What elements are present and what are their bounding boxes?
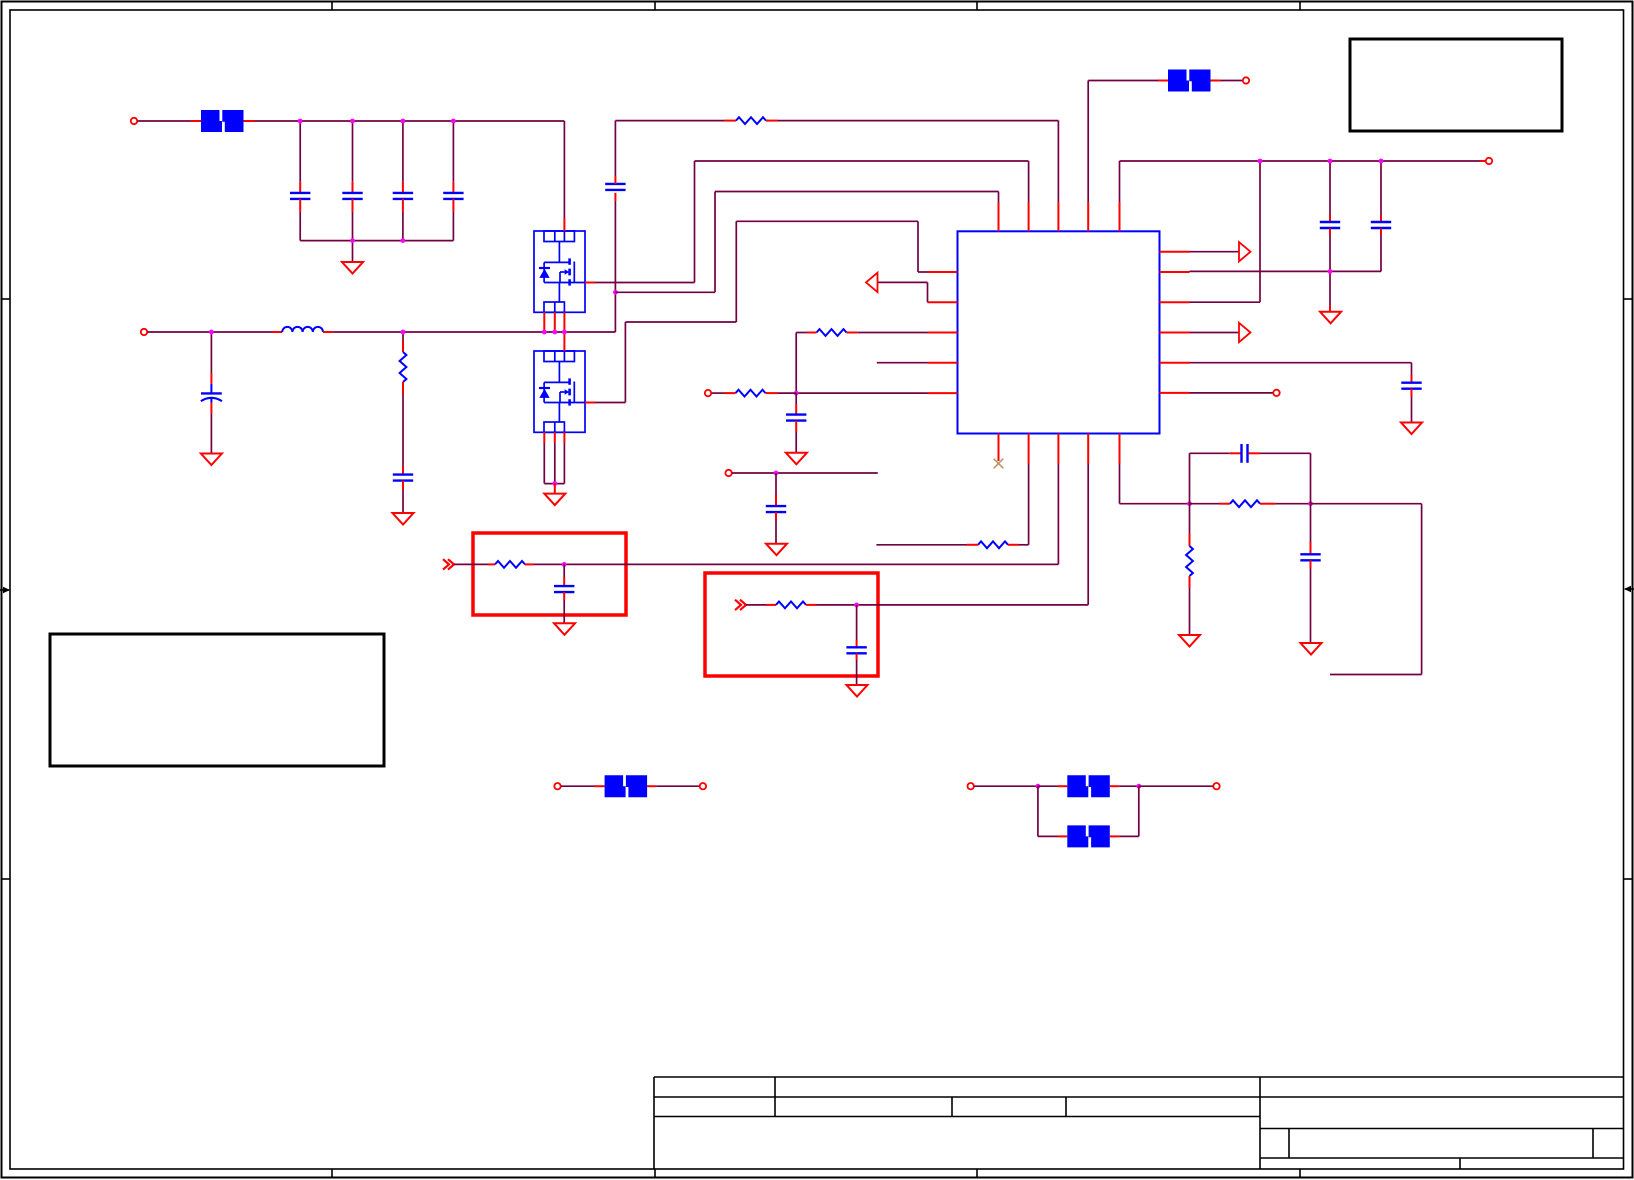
U1 pins: [928, 202, 1190, 464]
node: [562, 562, 567, 567]
wire: [1119, 835, 1139, 837]
wire: [656, 785, 699, 787]
cap lead: [795, 404, 797, 415]
node: [1328, 159, 1333, 164]
ground: [1320, 312, 1341, 324]
capacitor C13: [554, 586, 574, 592]
wire: [876, 544, 967, 546]
wire: [402, 490, 404, 513]
wire: [1088, 80, 1158, 82]
wire: [333, 331, 615, 333]
node: [774, 471, 779, 476]
wire netB: [695, 160, 1029, 162]
arrow port in1: [866, 273, 878, 292]
wire: [778, 120, 1059, 122]
input port chevron IN2: [735, 600, 746, 610]
cap lead: [299, 182, 301, 193]
wire: [352, 121, 354, 182]
wire: [1119, 161, 1121, 202]
ground: [786, 453, 807, 465]
wire: [1311, 503, 1422, 505]
wire: [1329, 271, 1331, 305]
ferrite bead FB2: [1168, 70, 1211, 92]
res lead: [1260, 503, 1275, 505]
cap lead: [452, 199, 454, 212]
ground: [1401, 423, 1422, 435]
cap lead: [1411, 375, 1413, 383]
wire: [796, 332, 807, 334]
wire: [299, 121, 301, 182]
wire: [452, 121, 454, 182]
wire: [561, 785, 595, 787]
wire: [1120, 503, 1190, 505]
capacitor C3: [393, 193, 413, 199]
wire: [138, 120, 191, 122]
pin lead Q2 bottom: [563, 432, 565, 443]
ground: [393, 513, 414, 525]
port P3: [1243, 77, 1249, 83]
wire: [1190, 251, 1240, 253]
res lead: [1189, 534, 1191, 547]
resistor R6: [978, 541, 1008, 548]
resistor R5: [776, 602, 806, 609]
wire: [255, 120, 564, 122]
res lead: [525, 563, 534, 565]
wire: [1190, 392, 1274, 394]
wire: [1310, 453, 1312, 503]
capacitor C16: [1300, 554, 1320, 560]
ferrite bead FB4: [1067, 775, 1110, 797]
wire: [554, 443, 556, 484]
cap lead: [1411, 389, 1413, 397]
wire: [299, 212, 301, 241]
node: [552, 330, 557, 335]
port P9: [700, 783, 706, 789]
wire: [775, 519, 777, 544]
cap lead: [402, 199, 404, 212]
wire: [402, 212, 404, 241]
cap lead: [775, 495, 777, 506]
res lead: [488, 563, 495, 565]
transistor Q1: [534, 231, 585, 312]
wire: [1380, 161, 1382, 215]
wire: [1119, 785, 1139, 787]
wire: [735, 221, 737, 322]
cap lead: [554, 484, 556, 494]
wire bus: [300, 240, 453, 242]
highlight box RB2: [705, 573, 878, 676]
wire netC: [715, 191, 999, 193]
wire: [563, 443, 565, 484]
capacitor C10: [1401, 383, 1421, 389]
wire: [563, 600, 565, 623]
wire: [714, 192, 716, 293]
cap lead: [352, 182, 354, 193]
cap lead: [402, 481, 404, 490]
wire: [1087, 464, 1089, 605]
cap lead: [210, 373, 212, 384]
inductor L1: [282, 327, 323, 332]
wire: [1189, 453, 1191, 503]
wire: [817, 604, 1089, 606]
ferrite bead FB1: [201, 110, 244, 132]
port P1: [131, 118, 137, 124]
pin lead: [595, 785, 605, 787]
note box BL: [50, 634, 384, 766]
wire: [1057, 121, 1059, 202]
wire: [1190, 362, 1412, 364]
pin lead Q1 bottom: [543, 312, 545, 332]
capacitor C2: [342, 193, 362, 199]
port P11: [1213, 783, 1219, 789]
cap lead: [614, 176, 616, 184]
cap lead: [1329, 305, 1331, 312]
wire: [1019, 544, 1029, 546]
wire: [796, 392, 927, 394]
wire net271: [1190, 270, 1382, 272]
wire: [917, 221, 919, 272]
ground: [554, 623, 575, 635]
node J12: [1036, 784, 1041, 789]
wire: [1310, 504, 1312, 542]
node: [1379, 159, 1384, 164]
cap lead: [1310, 560, 1312, 568]
pin lead Q1 bottom: [554, 312, 556, 332]
node: [350, 119, 355, 124]
ferrite bead FB3: [605, 775, 648, 797]
wire: [1028, 161, 1030, 202]
wire: [1221, 80, 1243, 82]
wire: [352, 241, 354, 262]
res lead: [402, 382, 404, 395]
wire: [1329, 161, 1331, 215]
pin lead: [1480, 160, 1486, 162]
pin lead: [1110, 835, 1119, 837]
capacitor C14: [846, 647, 866, 653]
res lead: [766, 120, 778, 122]
res lead: [724, 120, 736, 122]
ind lead: [323, 331, 333, 333]
input port chevron IN1: [443, 559, 454, 569]
wire: [918, 271, 928, 273]
wire: [1138, 786, 1140, 836]
pin lead Q1 top: [563, 218, 565, 231]
res lead: [766, 392, 778, 394]
node: [451, 119, 456, 124]
wire: [1190, 301, 1261, 303]
port P10: [968, 783, 974, 789]
wire: [856, 605, 858, 640]
cap lead: [1230, 452, 1241, 454]
capacitor C9: [1371, 222, 1391, 228]
res lead: [967, 544, 978, 546]
res lead: [766, 604, 776, 606]
cap lead: [856, 653, 858, 660]
cap lead: [1249, 452, 1261, 454]
capacitor C1: [290, 193, 310, 199]
cap lead: [1329, 215, 1331, 222]
cap lead: [402, 466, 404, 475]
cap lead: [563, 592, 565, 600]
note box TR: [1350, 39, 1562, 131]
resistor R2: [400, 352, 407, 382]
transistor Q2: [534, 351, 585, 432]
wire: [1037, 786, 1039, 836]
wire: [1189, 588, 1191, 635]
cap lead: [775, 512, 777, 519]
res lead: [847, 332, 858, 334]
node: [613, 290, 618, 295]
node: [209, 330, 214, 335]
ferrite bead FB5: [1067, 825, 1110, 847]
cap lead: [299, 199, 301, 212]
node: [562, 330, 567, 335]
res lead: [1189, 576, 1191, 588]
wire: [1028, 464, 1030, 545]
node: [401, 238, 406, 243]
wire: [877, 362, 928, 364]
wire: [452, 212, 454, 241]
wire: [402, 332, 404, 340]
wire: [625, 321, 736, 323]
wire: [856, 660, 858, 685]
wire: [1190, 503, 1220, 505]
cap lead: [1380, 229, 1382, 236]
wire: [563, 121, 565, 218]
resistor R8: [1186, 546, 1193, 576]
capacitor C7: [605, 184, 625, 190]
wire: [1380, 235, 1382, 271]
pin lead: [1110, 785, 1119, 787]
wire: [148, 331, 273, 333]
wire: [1190, 332, 1240, 334]
wire: [624, 322, 626, 403]
pin lead: [1058, 785, 1068, 787]
wire: [1057, 464, 1059, 565]
wire: [614, 201, 616, 292]
wire: [614, 121, 616, 176]
res lead: [1220, 503, 1231, 505]
wire: [1038, 835, 1058, 837]
wire: [857, 332, 927, 334]
node: [350, 238, 355, 243]
ground: [342, 262, 363, 274]
wire: [1087, 81, 1089, 203]
node J13: [1136, 784, 1141, 789]
wire: [534, 563, 1058, 565]
node: [1258, 159, 1263, 164]
node: [542, 330, 547, 335]
pin lead: [244, 120, 256, 122]
arrow port out1: [1239, 242, 1251, 261]
wire: [210, 332, 212, 373]
wire: [1139, 785, 1213, 787]
node: [1328, 269, 1333, 274]
wire: [1260, 452, 1311, 454]
pin lead Q2 right: [585, 402, 595, 404]
capacitor C4: [443, 193, 463, 199]
node: [401, 119, 406, 124]
port P4: [1486, 158, 1492, 164]
no-connect marker on U1 pin: [994, 459, 1004, 469]
wire: [595, 282, 695, 284]
wire: [1330, 674, 1422, 676]
pin lead Q1 bottom: [563, 312, 565, 332]
wire: [544, 483, 564, 485]
ground: [1179, 635, 1200, 647]
wire: [402, 395, 404, 467]
wire: [775, 473, 777, 495]
wire: [402, 121, 404, 182]
cap lead: [452, 182, 454, 193]
pin lead: [191, 120, 202, 122]
pin lead: [1058, 835, 1068, 837]
highlight box RB1: [473, 533, 626, 615]
node: [794, 391, 799, 396]
wire netA: [615, 120, 724, 122]
wire: [927, 282, 929, 302]
port P2: [141, 329, 147, 335]
res lead: [725, 392, 736, 394]
resistor R4: [495, 561, 525, 568]
pin lead Q2 bottom: [554, 432, 556, 443]
port P5: [1273, 390, 1279, 396]
wire netD: [736, 220, 918, 222]
pin lead: [1211, 80, 1221, 82]
wire: [1329, 235, 1331, 271]
wire: [998, 192, 1000, 203]
ind lead: [272, 331, 282, 333]
node: [401, 330, 406, 335]
pin lead: [647, 785, 656, 787]
IC U1: [958, 231, 1160, 433]
capacitor C11b: [786, 415, 806, 421]
node: [854, 603, 859, 608]
pin lead Q1 right: [585, 282, 595, 284]
wire: [1259, 161, 1261, 302]
ground: [201, 454, 222, 466]
wire: [1310, 568, 1312, 643]
capacitor C5: [201, 384, 222, 403]
resistor R9: [736, 390, 766, 397]
capacitor C6: [393, 475, 413, 481]
wire: [732, 472, 878, 474]
pin lead Q2 top: [563, 332, 565, 351]
node J10: [1187, 501, 1192, 506]
wire: [614, 292, 616, 332]
wire: [1411, 397, 1413, 423]
wire: [595, 402, 625, 404]
ground: [544, 494, 565, 506]
wire: [694, 161, 696, 283]
wire: [1038, 785, 1058, 787]
wire: [1189, 504, 1191, 534]
cap lead: [614, 193, 616, 201]
arrow port out2: [1239, 323, 1251, 342]
resistor R1: [736, 117, 766, 124]
ground: [1301, 643, 1322, 655]
port P8: [554, 783, 560, 789]
capacitor C15: [1242, 444, 1248, 463]
port P7: [725, 470, 731, 476]
wire net161: [1120, 160, 1481, 162]
wire: [712, 392, 725, 394]
wire: [795, 432, 797, 453]
wire: [1411, 363, 1413, 375]
wire: [878, 281, 928, 283]
node J11: [1308, 501, 1313, 506]
wire: [777, 392, 796, 394]
pin lead Q2 bottom: [543, 432, 545, 443]
cap lead: [1380, 215, 1382, 222]
wire: [795, 333, 797, 394]
port P6: [705, 390, 711, 396]
cap lead: [352, 199, 354, 212]
cap lead: [1329, 229, 1331, 236]
wire: [1421, 504, 1423, 675]
node: [552, 481, 557, 486]
ground: [847, 685, 868, 697]
res lead: [402, 340, 404, 352]
pin lead: [1158, 80, 1168, 82]
node: [298, 119, 303, 124]
res lead: [1008, 544, 1019, 546]
wire: [746, 604, 766, 606]
res lead: [807, 332, 817, 334]
capacitor C12: [766, 506, 786, 512]
wire: [1190, 452, 1230, 454]
capacitor C8: [1320, 222, 1340, 228]
wire: [795, 393, 797, 404]
cap lead: [856, 640, 858, 647]
cap lead: [1310, 542, 1312, 554]
wire: [210, 414, 212, 454]
wire: [1275, 503, 1310, 505]
wire: [454, 563, 488, 565]
cap lead: [402, 182, 404, 193]
cap lead: [795, 421, 797, 432]
wire: [563, 564, 565, 577]
resistor R3: [817, 329, 847, 336]
wire: [615, 291, 715, 293]
wire: [974, 785, 1038, 787]
wire: [543, 443, 545, 484]
cap lead: [563, 577, 565, 586]
wire: [352, 212, 354, 241]
ground: [766, 544, 787, 556]
resistor R7: [1230, 500, 1260, 507]
cap lead: [210, 403, 212, 414]
res lead: [806, 604, 817, 606]
wire: [1119, 464, 1121, 504]
